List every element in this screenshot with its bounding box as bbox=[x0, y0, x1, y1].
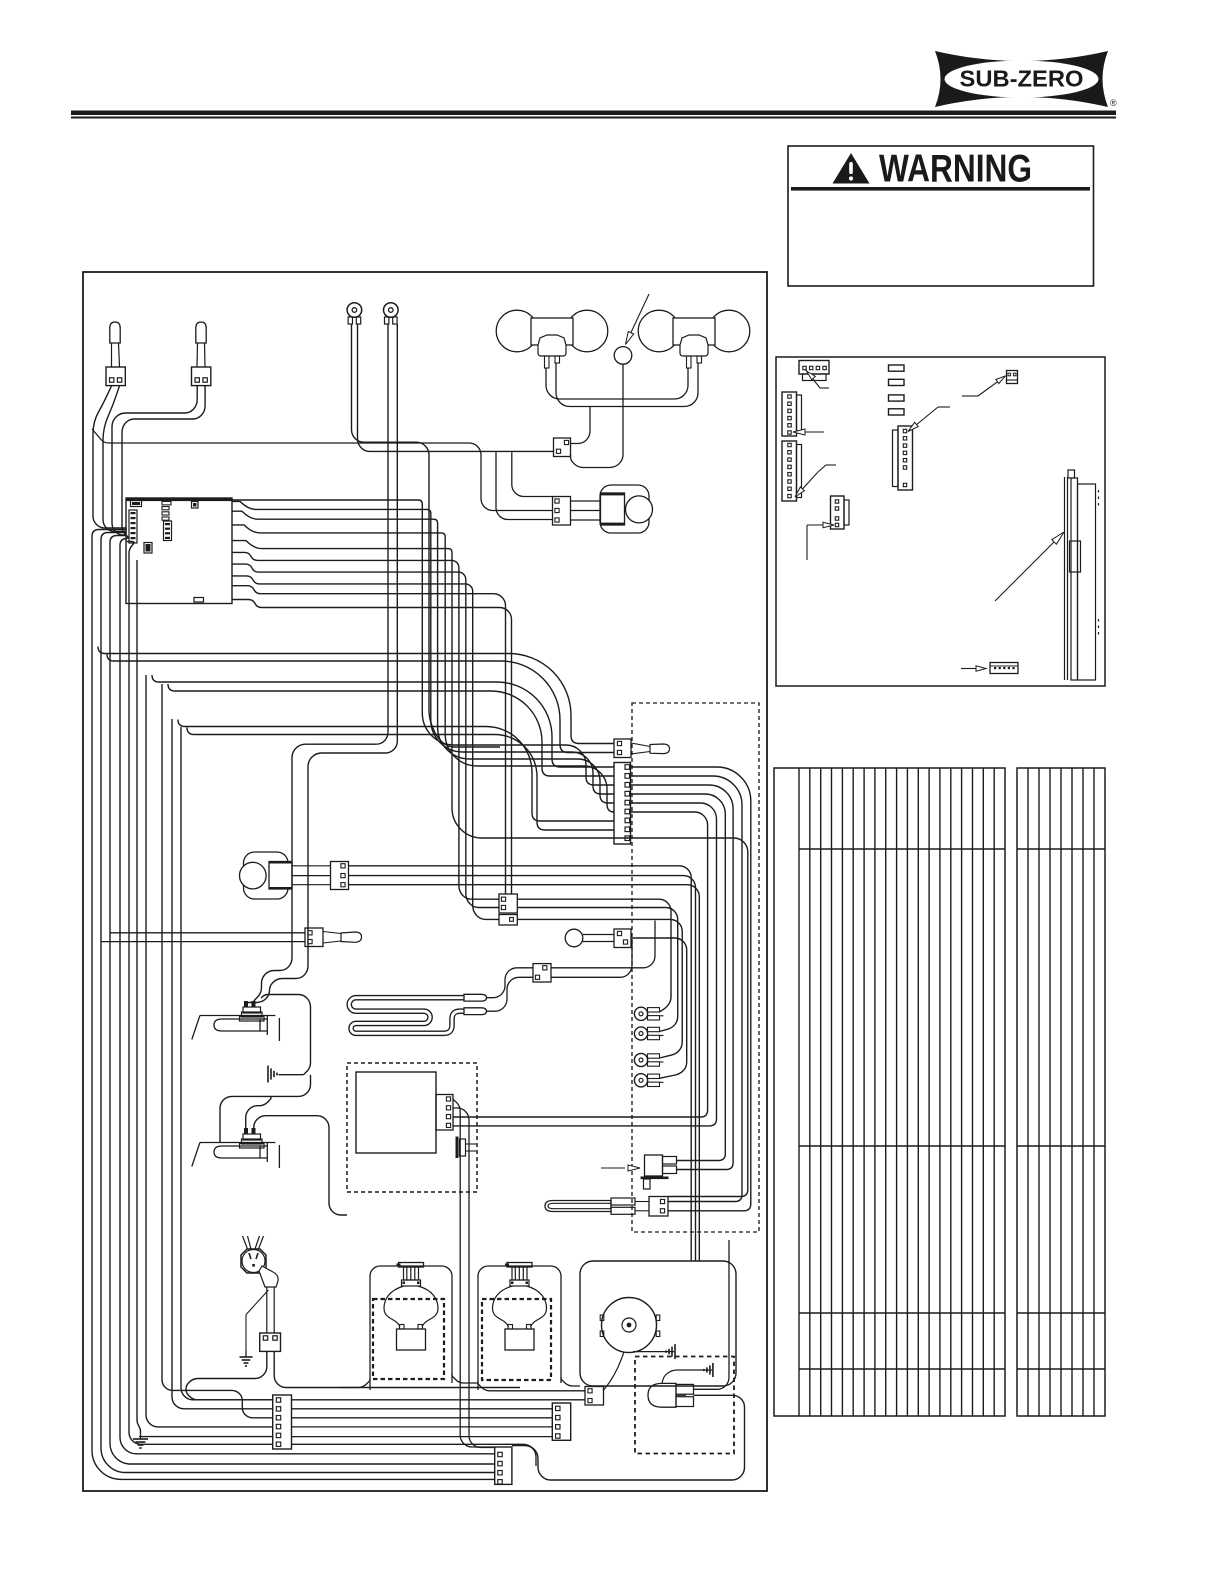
svg-text:®: ® bbox=[1110, 98, 1117, 108]
svg-text:WARNING: WARNING bbox=[879, 148, 1032, 191]
svg-text:SUB-ZERO: SUB-ZERO bbox=[960, 66, 1084, 92]
